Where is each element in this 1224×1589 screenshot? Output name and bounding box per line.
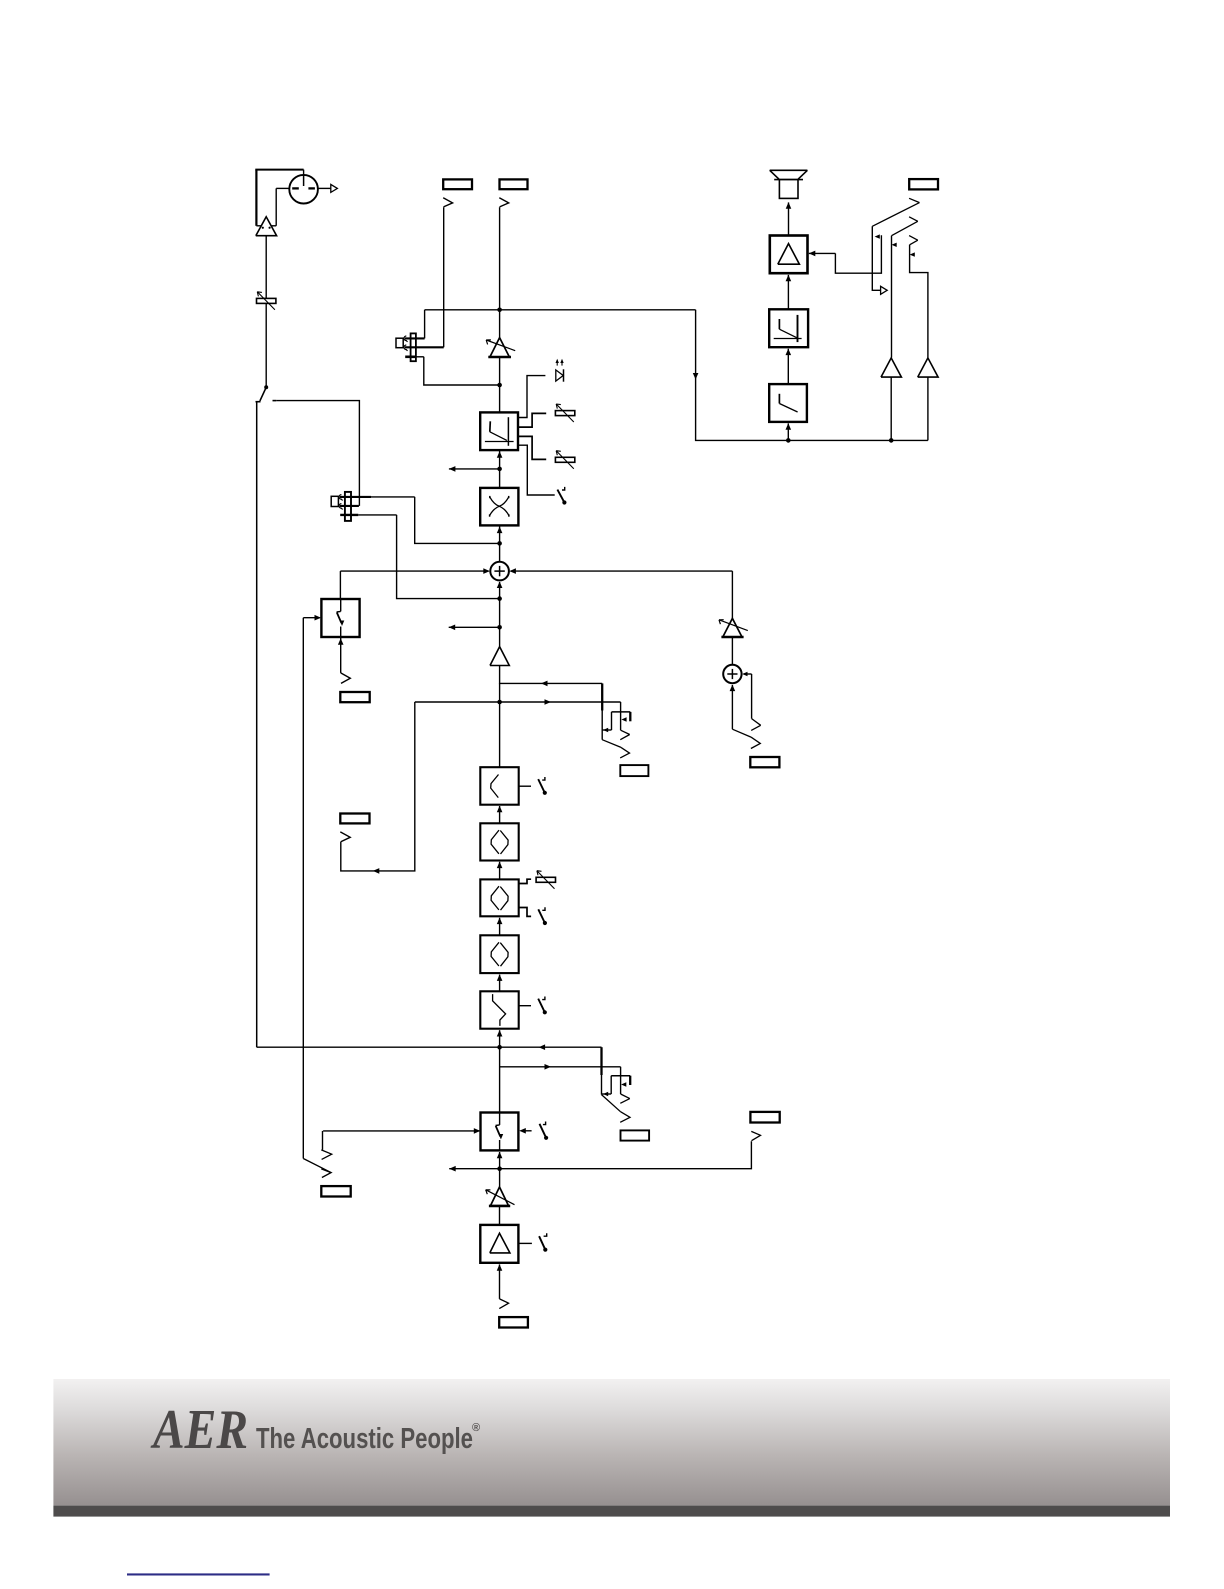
svg-text:®: ®: [472, 1422, 480, 1434]
jack J4 effect loop send contact: [620, 702, 629, 740]
jack J1 insert send/return socket: [443, 179, 472, 207]
wire I2 tip to node above sum: [415, 497, 500, 544]
wire input jack to U5: [497, 1264, 503, 1299]
op-amp A5 phones L: [881, 358, 901, 377]
potentiometer P1 DI level: [257, 292, 276, 310]
svg-text:AER: AER: [150, 1399, 248, 1461]
wire U4 right pin: [519, 1128, 531, 1134]
op-amp A2 master volume (VCA): [486, 338, 515, 357]
jack J4 effect loop return contact: [602, 683, 629, 758]
insert jack I1 (effects insert): [396, 333, 444, 361]
wire aux jack into SUM2 right: [742, 672, 760, 731]
switch S6 input select control: [540, 1122, 549, 1140]
wire A3 input from FX return: [500, 666, 603, 687]
op-amp A1 DI line driver: [256, 217, 277, 236]
wire FX send run: [415, 699, 621, 705]
wire into U8 right (from phones jack lever): [809, 234, 882, 273]
jack J3 DI line out: [340, 673, 369, 702]
switch S3 EQ1 on/off: [538, 777, 547, 795]
filter block EQ3 (mid bell sweep): [480, 879, 518, 916]
jack J4 switching contact staple: [602, 712, 630, 732]
wire U1 bypass pin: [518, 445, 555, 495]
jack J10 phones socket: [909, 179, 938, 189]
wire I2 sleeve to node below sum: [397, 515, 500, 599]
wire tap right to tuner jack: [500, 1141, 752, 1169]
wire into U6: [786, 423, 792, 440]
wire DI post-EQ bottom run: [257, 1044, 602, 1050]
op-amp A7 aux level (VCA): [719, 618, 748, 637]
wire A6 to feed: [927, 377, 929, 440]
wire aux into SUM1 right: [509, 568, 732, 618]
wire DI post-EQ long left vertical: [256, 402, 258, 1047]
wire U8 to speaker: [786, 202, 792, 235]
wire S2 to insert I2 ring: [276, 401, 359, 506]
jack J9 instrument input: [499, 1299, 528, 1328]
wire U2 to U1 with tuner tap: [497, 450, 503, 488]
summing node SUM1: [490, 562, 509, 581]
wire EQ1 switch pin: [519, 785, 531, 787]
op-amp A6 phones R: [918, 358, 938, 377]
filter block EQ4 (bell): [480, 935, 518, 973]
svg-text:The Acoustic People: The Acoustic People: [256, 1423, 473, 1455]
limiter block U7: [769, 309, 808, 347]
jack J6 ring contact from EQ line: [602, 1047, 631, 1122]
XLR DI output connector X1: [289, 175, 318, 204]
wire into U3 left: [303, 615, 321, 621]
jack J5 line out socket: [340, 814, 369, 824]
LED D1 compressor indicator: [556, 359, 564, 382]
filter block EQ1 (high): [480, 767, 518, 805]
wire J2 down to main node: [499, 207, 501, 310]
switch S2 DI source select: [256, 385, 277, 401]
op-amp A4 input gain (VCA): [486, 1187, 515, 1206]
insert jack I2 (pre out / main in): [331, 492, 415, 521]
wire DI tap into SUM1 left: [340, 568, 489, 574]
switch S1 compressor on/off: [557, 487, 566, 505]
jack J8 socket: [321, 1186, 350, 1196]
wire below SUM1 with taps: [497, 582, 503, 647]
wire tap arrow left (footswitch tap): [449, 1166, 499, 1172]
switch S4 EQ3 on/off: [538, 907, 547, 925]
wire U3 left feed long vertical: [302, 618, 304, 1159]
wire I1 sleeve to node below A2: [424, 357, 500, 385]
wire U3 bottom to jack J3: [338, 637, 344, 673]
switch block U3 DI pre/post select: [321, 599, 359, 637]
wire A1 to DI level pot: [265, 236, 267, 299]
wire A7 to SUM2: [731, 637, 733, 665]
wire A2 to compressor U1: [497, 357, 502, 412]
wire EQ3 switch pin: [519, 908, 531, 917]
wire EQ5 switch pin: [519, 1005, 531, 1007]
switch block U4 input select: [481, 1113, 519, 1151]
logo AER: [150, 1399, 248, 1461]
jack J8 switching lever from U3 feed: [303, 1159, 331, 1178]
wire below U4 with tuner tap: [497, 1152, 503, 1187]
wire EQ4 to EQ3: [497, 918, 503, 936]
potentiometer P2 threshold: [555, 404, 574, 422]
wire U6 to U7: [786, 349, 792, 385]
wire tap arrow left (to tuner): [449, 466, 500, 472]
wire U1 threshold pin: [518, 413, 546, 427]
logo tagline The Acoustic People: [256, 1422, 480, 1455]
jack J10 left contact: [892, 217, 918, 358]
filter block EQ5 (low shelf): [480, 991, 518, 1028]
potentiometer P3 ratio: [555, 451, 574, 469]
jack J5 contact and feed: [340, 702, 415, 874]
wire U1 ratio pin: [518, 436, 546, 459]
footer blue rule: [127, 1573, 270, 1575]
power amp U8: [770, 236, 808, 274]
crossfade block U2: [480, 488, 518, 526]
jack J10 right contact: [909, 236, 928, 358]
jack J6 footswitch tip contact: [620, 1067, 630, 1104]
wire balanced pair into X1: [256, 170, 289, 226]
wire DI-out top run: [255, 170, 303, 175]
compressor U1: [480, 412, 518, 450]
preamp block U5: [480, 1225, 518, 1263]
jack J10 speaker switching lever: [872, 198, 919, 294]
wire footswitch branch: [500, 1064, 621, 1070]
wire I1 tip to main feed: [424, 310, 426, 339]
switch S7 preamp mode: [539, 1233, 547, 1252]
wire P1 to switch S2: [265, 304, 267, 388]
wire EQ3 to EQ2: [497, 862, 503, 880]
footer banner: [53, 1379, 1170, 1517]
wire main chain EQ to FX send node: [497, 683, 502, 767]
wire EQ5 to EQ4: [497, 974, 503, 991]
jack J11 aux input socket: [750, 757, 779, 767]
jack J2 main insert socket: [499, 179, 527, 207]
wire U1 LED pin: [518, 376, 545, 418]
wire into U4 left from aux jack: [323, 1128, 480, 1134]
wire U3 top to sum run corner: [339, 571, 341, 599]
wire I1 ring to jack J1: [443, 207, 445, 347]
wire U7 to power amp U8: [786, 275, 792, 310]
limiter block U6: [769, 384, 807, 422]
switch S5 EQ5 on/off: [538, 997, 547, 1015]
wire node to A2: [499, 310, 501, 338]
jack J7 tuner out: [750, 1112, 779, 1141]
summing node SUM2 aux: [723, 665, 741, 683]
wire U2 input from sum: [497, 525, 503, 561]
jack J6 socket: [621, 1130, 650, 1140]
wire EQ2 to EQ1: [497, 806, 503, 824]
loudspeaker LS1: [770, 170, 808, 198]
potentiometer P4 mid frequency: [536, 871, 555, 889]
wire below EQ5 to input select: [497, 1030, 503, 1113]
wire A4 to preamp U5: [499, 1206, 501, 1225]
filter block EQ2 (mid bell): [480, 823, 518, 860]
op-amp A3 effects-return buffer: [490, 647, 509, 666]
DI out direction arrow: [318, 184, 337, 192]
jack J6 switching contact staple: [602, 1076, 630, 1097]
wire U5 switch pin: [518, 1242, 532, 1244]
wire A5 to feed: [890, 377, 892, 440]
wire main feed to power chain: [693, 310, 928, 443]
wire EQ3 freq pin: [519, 879, 531, 883]
wire aux jack into SUM2 bottom: [730, 685, 761, 749]
jack J4 socket: [620, 765, 648, 776]
wire main feed horizontal: [425, 308, 696, 313]
jack J8 aux input contact: [321, 1131, 331, 1160]
wire tap arrow left (tuner out tap): [449, 625, 500, 631]
